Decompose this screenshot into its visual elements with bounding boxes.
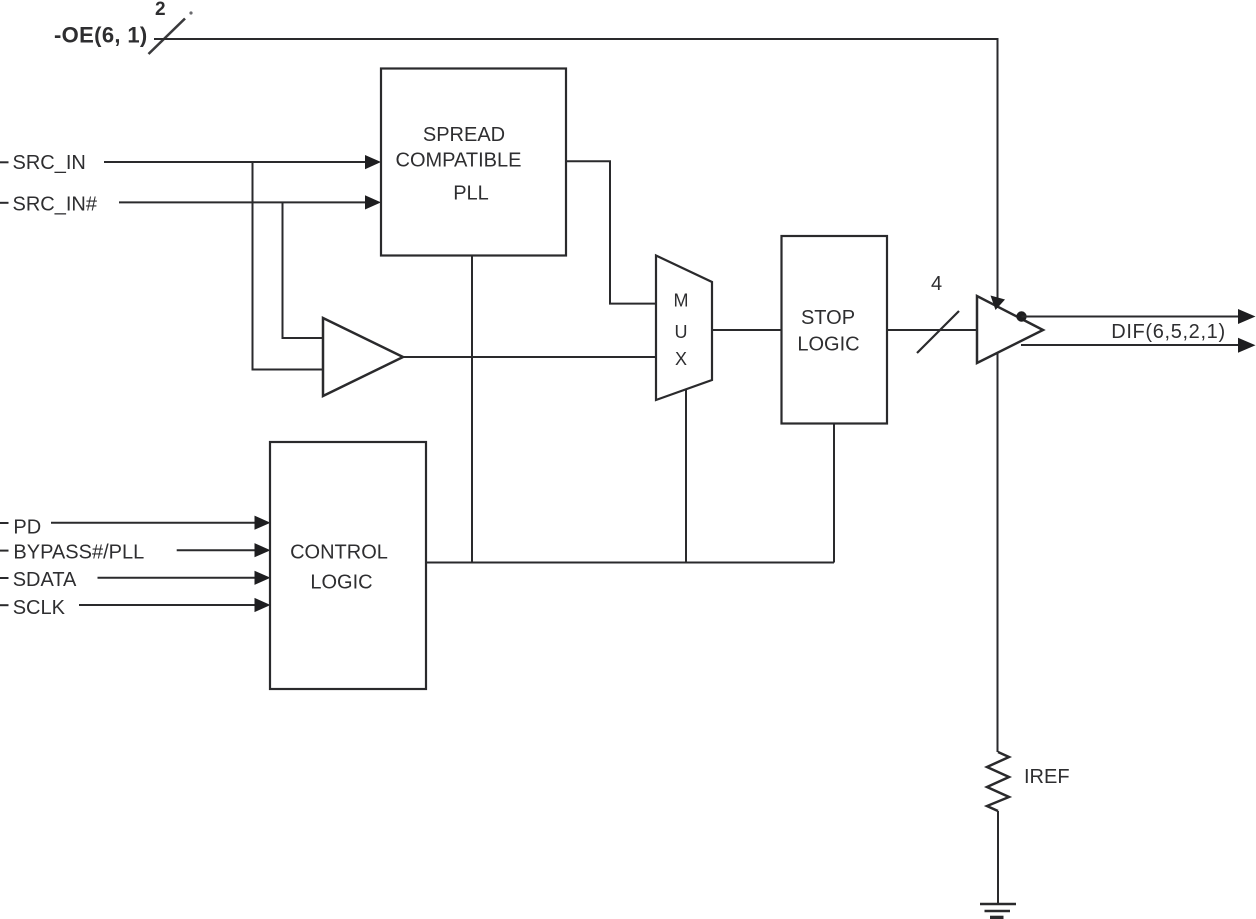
svg-text:PLL: PLL xyxy=(453,182,489,204)
wire SCLK to control logic xyxy=(79,604,256,606)
wire STOP LOGIC output to output buffer xyxy=(887,329,977,331)
wire MUX select to control bus xyxy=(685,388,687,563)
svg-text:SDATA: SDATA xyxy=(13,569,77,591)
net label DIF(6,5,2,1) xyxy=(1111,321,1226,343)
ground xyxy=(980,904,1016,918)
wire BYPASS#/PLL to control logic xyxy=(177,549,256,551)
arrow SCLK into control logic xyxy=(255,598,271,612)
svg-text:LOGIC: LOGIC xyxy=(310,572,372,594)
wire DIF complement output xyxy=(1021,338,1256,353)
arrow SRC_IN# into PLL xyxy=(365,195,381,209)
wire PLL bottom to control bus xyxy=(471,256,473,563)
svg-text:LOGIC: LOGIC xyxy=(797,334,859,356)
bus slash on -OE wire xyxy=(149,11,193,54)
label IREF xyxy=(1024,766,1070,788)
junction dot on output buffer true output xyxy=(1016,311,1026,321)
svg-text:4: 4 xyxy=(931,273,942,295)
arrow BYPASS#/PLL into control logic xyxy=(255,543,271,557)
wire SRC_IN# to PLL xyxy=(119,201,367,203)
arrow SRC_IN into PLL xyxy=(365,155,381,169)
svg-text:M: M xyxy=(674,290,689,310)
arrow SDATA into control logic xyxy=(255,571,271,585)
wire STOP LOGIC bottom to control bus xyxy=(833,424,835,563)
bus width label 4 xyxy=(931,273,942,295)
wire MUX output to STOP LOGIC xyxy=(712,329,782,331)
arrow -OE into output buffer xyxy=(991,296,1006,311)
svg-text:2: 2 xyxy=(155,0,166,20)
pin label SDATA xyxy=(0,569,77,591)
resistor IREF xyxy=(987,752,1009,811)
svg-text:SCLK: SCLK xyxy=(13,597,66,619)
svg-text:U: U xyxy=(675,322,688,342)
svg-text:DIF(6,5,2,1): DIF(6,5,2,1) xyxy=(1111,321,1226,343)
buffer amplifier input stage xyxy=(323,318,403,396)
buffer output driver xyxy=(977,296,1043,363)
bus slash on output xyxy=(917,311,959,353)
svg-text:STOP: STOP xyxy=(801,307,855,329)
wire PD to control logic xyxy=(51,522,256,524)
wire DIF true output xyxy=(1022,309,1256,324)
wire SRC_IN# branch to input buffer upper input xyxy=(283,202,324,338)
block U1 SPREAD COMPATIBLE PLL xyxy=(381,69,566,256)
wire -OE vertical down right side xyxy=(997,38,999,752)
block U6 CONTROL LOGIC xyxy=(270,442,426,689)
wire -OE horizontal top xyxy=(154,38,998,40)
wire input buffer output to MUX input B xyxy=(400,356,656,358)
svg-text:COMPATIBLE: COMPATIBLE xyxy=(396,149,522,171)
svg-text:PD: PD xyxy=(13,517,41,539)
pin label SCLK xyxy=(0,597,66,619)
svg-text:CONTROL: CONTROL xyxy=(290,542,388,564)
wire SRC_IN to PLL xyxy=(104,161,367,163)
wire SRC_IN branch to input buffer lower input xyxy=(253,162,324,370)
wire control bus horizontal xyxy=(426,562,834,564)
pin label PD xyxy=(0,517,41,539)
bus width label 2 xyxy=(155,0,166,20)
svg-text:-OE(6, 1): -OE(6, 1) xyxy=(54,23,148,48)
arrow PD into control logic xyxy=(255,516,271,530)
pin label BYPASS#/PLL xyxy=(0,542,144,564)
block U4 STOP LOGIC xyxy=(782,236,888,424)
mux MUX xyxy=(656,256,712,401)
wire PLL output to MUX input A xyxy=(566,161,656,303)
svg-text:BYPASS#/PLL: BYPASS#/PLL xyxy=(13,542,144,564)
svg-text:IREF: IREF xyxy=(1024,766,1070,788)
svg-text:X: X xyxy=(675,349,687,369)
svg-text:SRC_IN: SRC_IN xyxy=(13,152,86,174)
svg-text:SPREAD: SPREAD xyxy=(423,124,505,146)
net label -OE(6,1) xyxy=(54,23,148,48)
wire IREF to ground xyxy=(997,811,999,904)
pin label SRC_IN xyxy=(0,152,86,174)
wire SDATA to control logic xyxy=(98,577,257,579)
pin label SRC_IN# xyxy=(0,194,98,216)
svg-text:SRC_IN#: SRC_IN# xyxy=(13,194,98,216)
